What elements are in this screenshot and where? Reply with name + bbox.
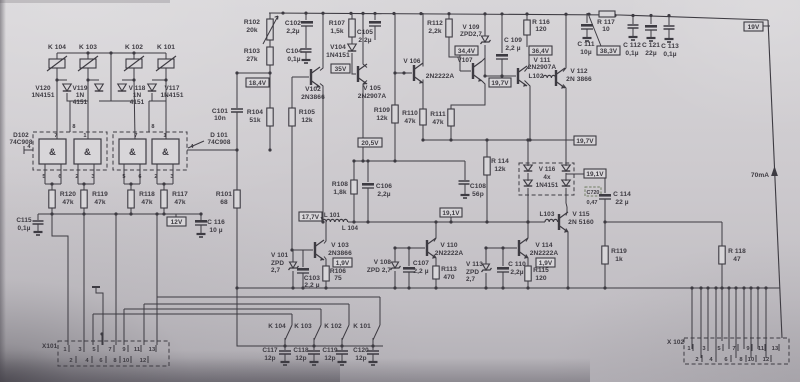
inductor L102 [543, 75, 556, 78]
label V116 [536, 166, 559, 189]
node top rail [483, 12, 486, 15]
svg-text:1: 1 [163, 133, 166, 139]
wire X101 pin5 stub [96, 287, 103, 345]
ground C111 [583, 38, 592, 41]
wire drop to K104 contact [291, 314, 293, 325]
transistor V106 [414, 63, 423, 84]
svg-text:R112: R112 [427, 20, 443, 27]
diode V119 [63, 84, 72, 91]
junction [483, 74, 486, 77]
capacitor C105 [357, 21, 381, 44]
wire gate output b [139, 164, 141, 184]
wire 12V box stub [175, 214, 177, 217]
wire resistor to rail [163, 208, 165, 214]
photo shadow bottom right corner [520, 222, 800, 382]
diode V120 [95, 84, 104, 91]
svg-text:V 108: V 108 [374, 259, 392, 266]
svg-text:C105: C105 [357, 29, 373, 36]
label 38,3V box [597, 46, 620, 55]
svg-text:56p: 56p [472, 191, 484, 198]
wire V101 top [292, 250, 294, 262]
photo highlight top right [500, 0, 800, 240]
wire drop to K102 contact [348, 304, 350, 325]
svg-text:120: 120 [535, 275, 547, 282]
ground C116 [197, 234, 206, 237]
label 35V box [331, 64, 350, 73]
label V106 [403, 58, 421, 65]
label K102 contact [324, 323, 342, 330]
wire bundle drop 4 [92, 314, 94, 345]
svg-text:34,4V: 34,4V [458, 48, 476, 55]
wire gate output b [60, 164, 62, 184]
svg-text:2: 2 [75, 174, 78, 180]
zener V109 [481, 36, 491, 44]
svg-text:3: 3 [91, 174, 94, 180]
svg-text:12: 12 [140, 358, 147, 364]
svg-text:C 111: C 111 [577, 41, 595, 48]
svg-text:47k: 47k [94, 199, 106, 206]
resistor R115 [525, 266, 549, 282]
svg-text:C103: C103 [304, 275, 320, 282]
svg-text:&: & [129, 147, 136, 158]
transistor V102 [301, 67, 325, 101]
svg-text:2,2µ: 2,2µ [358, 37, 371, 44]
junction [528, 138, 531, 141]
wire 19V stub [763, 25, 770, 27]
inductor L103 [545, 219, 558, 222]
svg-text:0,1µ: 0,1µ [287, 56, 300, 63]
svg-text:R110: R110 [402, 110, 418, 117]
wire C119 bottom [341, 354, 343, 361]
svg-text:2N2222A: 2N2222A [426, 73, 455, 80]
wire C120 top [372, 346, 374, 350]
pin number at x136 [134, 133, 137, 139]
wire diode col right bottom [566, 188, 567, 207]
wire pin8 left [69, 101, 71, 132]
wire rail to C121 [650, 14, 652, 24]
transistor V110 [427, 238, 463, 259]
label X102 [667, 339, 685, 346]
wire D101 label pointer [188, 141, 204, 148]
wire K101 top lead [165, 53, 167, 59]
node X102 rail [706, 286, 709, 289]
wire 19,7V lower line [423, 139, 574, 141]
wire C104 bottom [305, 52, 307, 59]
zener V101 [289, 262, 299, 270]
pin number 3 [91, 174, 94, 180]
node top rail [321, 12, 324, 15]
wire gate output b [172, 164, 174, 184]
junction [434, 220, 437, 223]
svg-text:27k: 27k [246, 56, 258, 63]
wire 17,7V stub [321, 217, 323, 222]
wire V107 collector [482, 46, 485, 61]
wire C110 top [502, 248, 504, 266]
diode V116d [562, 180, 571, 186]
junction [566, 286, 569, 289]
svg-text:2N2907A: 2N2907A [358, 93, 387, 100]
wire diode V120 pair stub [88, 79, 99, 81]
wire V111 emitter down [525, 81, 531, 141]
wire to R108 [353, 161, 355, 180]
wire K103 to gate pin1 [87, 80, 89, 139]
photo shadow top edge [0, 0, 170, 3]
svg-text:R108: R108 [332, 181, 348, 188]
capacitor C118 [308, 351, 320, 354]
svg-text:X101: X101 [42, 343, 58, 350]
transistor V107 [473, 61, 482, 82]
label 36,4V box [529, 46, 552, 55]
wire diode V117 bottom tie [149, 100, 166, 102]
svg-text:12V: 12V [171, 219, 183, 226]
wire to resistor [163, 184, 165, 190]
junction [449, 220, 452, 223]
node K102 contact [340, 344, 343, 347]
junction [501, 246, 504, 249]
svg-text:2,2 µ: 2,2 µ [413, 268, 428, 275]
wire X101 pin3 [83, 214, 85, 345]
wire C115 bottom lead [37, 224, 39, 231]
wire R107 to V104 [351, 37, 353, 44]
wire relay supply rail [57, 52, 166, 54]
wire R104 bottom [269, 126, 271, 150]
wire rail to R112 [448, 13, 450, 19]
svg-text:V 112: V 112 [570, 68, 588, 75]
svg-text:7: 7 [54, 133, 57, 139]
wire V103 emitter [324, 257, 326, 267]
svg-text:R101: R101 [216, 191, 232, 198]
junction [526, 220, 529, 223]
wire to R109 [394, 73, 396, 105]
wire K104 to gate pin7 [56, 80, 58, 139]
label 19V box [744, 22, 763, 31]
wire rail to R102 [269, 13, 271, 19]
capacitor C112 [623, 25, 641, 57]
svg-text:V 111: V 111 [533, 57, 550, 64]
wire K102 bottom lead [133, 68, 135, 80]
wire to C108 [464, 161, 466, 180]
svg-text:10: 10 [123, 358, 130, 364]
ground C117 [281, 362, 290, 365]
relay K103 coil [78, 56, 98, 71]
node L101 [321, 220, 324, 223]
svg-text:19,7V: 19,7V [576, 138, 594, 145]
wire gate output a [77, 164, 79, 184]
svg-text:C106: C106 [376, 183, 392, 190]
node C116 [199, 212, 202, 215]
wire rail to C111 [586, 13, 588, 23]
svg-text:19,7V: 19,7V [491, 80, 509, 87]
svg-text:R 118: R 118 [728, 248, 746, 255]
junction [393, 246, 396, 249]
wire rail to C113 [668, 14, 670, 25]
label C119 [322, 347, 338, 362]
svg-text:8: 8 [151, 124, 154, 130]
photo shadow bottom left corner [0, 152, 430, 382]
capacitor C121 [642, 25, 660, 57]
svg-text:V 106: V 106 [403, 58, 421, 65]
svg-text:38,3V: 38,3V [600, 48, 618, 55]
svg-text:2,2µ: 2,2µ [377, 191, 390, 198]
resistor R103 [244, 47, 273, 65]
pin number 5 [42, 174, 45, 180]
wire C107 top [408, 248, 410, 266]
wire V112 collector [563, 13, 566, 72]
wire V115 emitter [566, 229, 568, 289]
junction [501, 286, 504, 289]
wire rail to V109 [484, 13, 486, 36]
svg-text:R106: R106 [330, 268, 346, 275]
wire C108 bottom [464, 184, 466, 194]
svg-text:74C908: 74C908 [208, 139, 231, 146]
svg-text:V 113: V 113 [466, 261, 483, 268]
svg-text:1N4151: 1N4151 [536, 182, 559, 189]
wire V108 bottom [394, 271, 396, 288]
label 19,1V box first [440, 208, 462, 217]
svg-text:12k: 12k [494, 166, 506, 173]
node R103 bottom [235, 71, 238, 74]
wire C119 top [341, 346, 343, 350]
wire V108 top [394, 248, 396, 262]
svg-text:70mA: 70mA [751, 172, 769, 179]
transistor V114 [519, 238, 558, 259]
svg-text:2,2 µ: 2,2 µ [505, 45, 520, 52]
node top rail [373, 12, 376, 15]
svg-text:11: 11 [134, 347, 141, 353]
node K103 contact [312, 344, 315, 347]
svg-text:2N2907A: 2N2907A [528, 64, 557, 71]
label 1,9V box first [333, 258, 352, 267]
wire X101 pin1 [52, 214, 68, 345]
label V106 part [426, 73, 455, 80]
resistor R118 [719, 246, 746, 264]
svg-text:47k: 47k [432, 119, 444, 126]
node R101 ground [235, 286, 238, 289]
label V117 1N4151 [161, 85, 184, 99]
svg-text:1N4151: 1N4151 [161, 92, 184, 99]
label 34,4V box [455, 46, 478, 55]
label 19,7V box second [574, 136, 596, 145]
wire K101 to gate pin1 [165, 80, 167, 139]
wire pin8 right [148, 101, 150, 132]
node R108 L line [352, 220, 355, 223]
resistor R120 [49, 190, 77, 208]
wire to R118 [605, 221, 722, 223]
wire C101 to pin4 node [236, 112, 238, 150]
wire to resistor [83, 184, 85, 190]
svg-text:K 103: K 103 [294, 323, 312, 330]
svg-text:19,1V: 19,1V [442, 210, 460, 217]
svg-text:47k: 47k [404, 118, 416, 125]
svg-text:V 105: V 105 [363, 85, 381, 92]
label L101 [324, 212, 341, 219]
wire V107 base lead [460, 70, 471, 72]
gate D102a [39, 139, 66, 164]
svg-text:C720: C720 [587, 190, 600, 196]
wire rail to R116 [526, 13, 528, 20]
gate D101a [119, 139, 146, 164]
svg-text:3: 3 [170, 174, 173, 180]
svg-text:C 113: C 113 [661, 43, 679, 50]
resistor R111 [430, 109, 454, 126]
pin number 6 [138, 174, 141, 180]
wire R103 bottom [269, 65, 271, 73]
label V113 [466, 261, 483, 283]
node pin4 line [235, 148, 238, 151]
junction [434, 286, 437, 289]
wire K104 top lead [56, 53, 58, 59]
svg-text:D 101: D 101 [210, 132, 228, 139]
wire V115 collector [566, 207, 567, 216]
wire K104 contact [284, 338, 286, 346]
wire R113 bottom [435, 279, 437, 288]
svg-text:6: 6 [58, 174, 61, 180]
junction [352, 159, 355, 162]
wire diode V117 bottom lead [151, 93, 153, 101]
zener V113 [482, 264, 492, 272]
node on 12V rail [50, 212, 53, 215]
svg-text:K 101: K 101 [353, 323, 371, 330]
junction [366, 159, 369, 162]
wire R118 bottom to X102 [721, 264, 723, 341]
svg-text:V 118: V 118 [129, 85, 146, 92]
wire X101 pin7 [115, 214, 117, 345]
transistor V103 [315, 240, 352, 261]
wire C116 bottom lead [200, 225, 202, 233]
svg-text:4x: 4x [543, 174, 551, 181]
wire K101 bottom lead [165, 68, 167, 80]
junction [324, 286, 327, 289]
svg-text:R111: R111 [430, 111, 446, 118]
terminal pin5 [92, 286, 100, 288]
svg-text:2: 2 [154, 174, 157, 180]
wire X102 pin [743, 288, 745, 349]
node divider [268, 71, 271, 74]
wire 19,7V node line [485, 75, 516, 77]
wire C103 top [292, 250, 303, 267]
annotation C720 [585, 187, 601, 206]
wire R105 bottom long [291, 126, 293, 250]
wire main top supply rail [269, 13, 768, 20]
node gate output [82, 182, 85, 185]
label L103 [540, 211, 555, 218]
node K104 contact [283, 344, 286, 347]
wire resistor to rail [51, 208, 53, 214]
svg-text:R113: R113 [441, 266, 457, 273]
wire V102 collector [320, 13, 323, 71]
svg-text:R 117: R 117 [597, 19, 615, 26]
junction [485, 220, 488, 223]
svg-text:10 µ: 10 µ [209, 227, 222, 234]
wire gate output a [44, 164, 46, 184]
svg-text:L102: L102 [529, 73, 544, 80]
svg-text:2,7: 2,7 [466, 276, 476, 283]
junction [301, 286, 304, 289]
pin number 2 [154, 174, 157, 180]
transistor V115 [559, 211, 594, 233]
wire stub [544, 221, 546, 223]
ground C104 [302, 60, 311, 63]
label 19,7V box first [489, 78, 511, 87]
inductor L104 [335, 219, 348, 222]
svg-text:R107: R107 [329, 20, 345, 27]
wire to resistor [130, 184, 132, 190]
svg-text:0,47: 0,47 [587, 200, 598, 206]
label C118 [293, 347, 309, 362]
svg-text:2N 3866: 2N 3866 [566, 76, 592, 83]
wire 12V rail [38, 213, 202, 215]
pin 4 label D101 [190, 144, 194, 150]
wire K103 bottom lead [87, 68, 89, 80]
wire bundle line 2 [144, 303, 349, 305]
wire pin4 end bar [23, 146, 25, 154]
wire C118 bottom [313, 354, 315, 361]
wire V104 to V105 base [352, 53, 356, 74]
capacitor C106 [362, 183, 392, 198]
wire L line to L103 [348, 221, 545, 223]
wire X102 pin [700, 288, 702, 358]
svg-text:2N2222A: 2N2222A [530, 250, 559, 257]
diode V116b [562, 165, 571, 171]
capacitor C120 [367, 351, 379, 354]
relay K104 coil [47, 56, 67, 71]
junction [720, 286, 723, 289]
ground C120 [369, 362, 378, 365]
svg-text:K 104: K 104 [48, 44, 66, 51]
wire X102 pin [728, 288, 730, 349]
gate D101b [152, 139, 179, 164]
svg-text:36,4V: 36,4V [532, 48, 550, 55]
wire drop to K101 contact [379, 297, 381, 325]
pin number at x85 [83, 133, 86, 139]
wire R112 bottom [449, 37, 460, 57]
resistor R119 [81, 190, 108, 208]
wire main ground rail [237, 287, 780, 289]
wire C105 bottom [374, 26, 376, 40]
resistor R117 supply [597, 11, 615, 33]
wire rail to C105 [374, 13, 376, 20]
capacitor C109 [496, 37, 522, 59]
svg-text:V 110: V 110 [440, 242, 458, 249]
wire X102 pin [757, 288, 759, 349]
svg-text:R119: R119 [611, 248, 627, 255]
label C115 [16, 217, 32, 232]
svg-text:120: 120 [535, 26, 547, 33]
junction [402, 71, 405, 74]
ic D101 outline [113, 132, 187, 170]
svg-text:470: 470 [443, 274, 455, 281]
svg-text:12p: 12p [264, 355, 275, 362]
wire C118 top [313, 346, 315, 350]
node R104 pin4 [268, 148, 271, 151]
wire X102 pin [707, 288, 709, 349]
wire C117 top [284, 346, 286, 350]
svg-text:K 102: K 102 [324, 323, 342, 330]
trimmer arrow R102 [263, 16, 278, 44]
wire X102 pin [750, 288, 752, 358]
label K104 [48, 44, 66, 51]
node top rail [281, 11, 284, 14]
svg-text:ZPD: ZPD [466, 269, 479, 276]
svg-text:5: 5 [42, 174, 45, 180]
wire C115 top lead [37, 214, 39, 220]
svg-text:R 114: R 114 [491, 158, 509, 165]
node on 12V rail [82, 212, 85, 215]
svg-text:R103: R103 [244, 48, 260, 55]
pin numbers X101 bottom row [69, 356, 148, 364]
svg-text:0,1µ: 0,1µ [663, 51, 676, 58]
junction [603, 286, 606, 289]
